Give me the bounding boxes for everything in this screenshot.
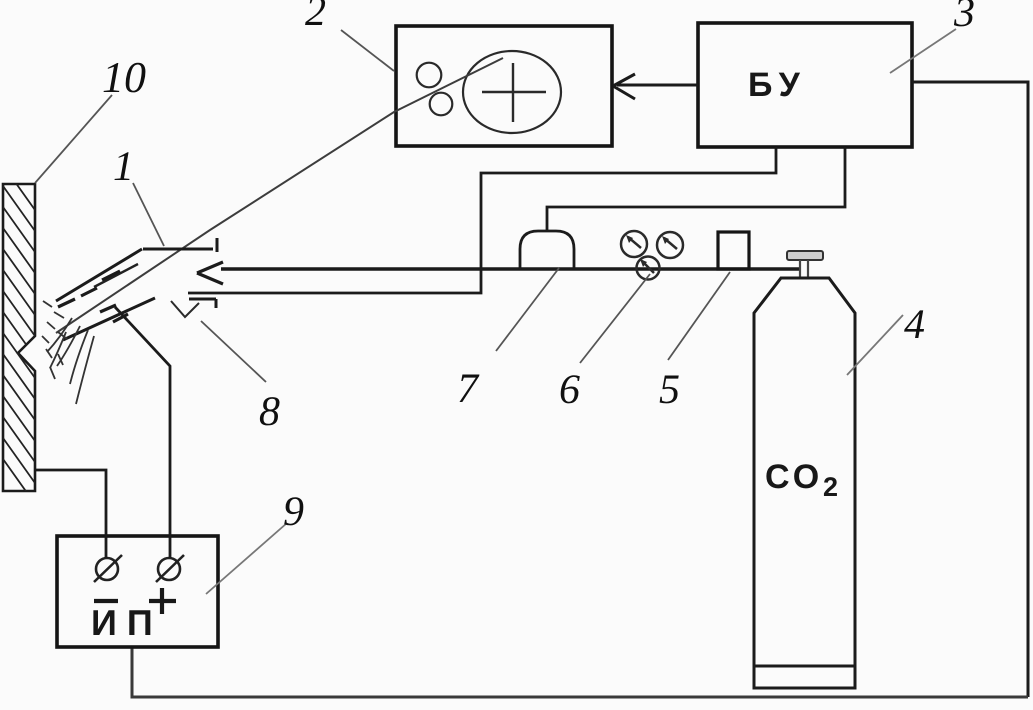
svg-text:4: 4	[904, 302, 925, 348]
welding torch 1	[56, 238, 217, 340]
svg-text:10: 10	[102, 53, 146, 102]
gas hose line	[221, 267, 799, 271]
pressure regulator 6 (gauges)	[621, 231, 683, 280]
feed roller upper	[417, 63, 442, 88]
pointer line 1	[133, 183, 164, 246]
arc spray	[42, 301, 94, 404]
electrode wire from spool to torch	[56, 58, 503, 333]
contact tube dashes 8	[58, 271, 128, 322]
svg-text:9: 9	[283, 489, 304, 535]
cylinder valve	[787, 251, 823, 260]
svg-text:7: 7	[457, 366, 480, 412]
pointer line 10	[35, 95, 112, 183]
terminal plus	[156, 555, 184, 582]
wire workpiece to ИП minus	[35, 470, 106, 558]
svg-text:8: 8	[259, 389, 280, 435]
control cable БУ to gas valve	[547, 147, 845, 232]
svg-text:3: 3	[953, 0, 975, 36]
wire БУ to bottom right corner	[912, 82, 1028, 697]
control cable БУ to torch	[188, 147, 776, 293]
pointer line 5	[668, 272, 730, 360]
arrow into torch	[197, 262, 223, 284]
pointer line 9	[206, 523, 287, 594]
svg-text:ИП: ИП	[91, 602, 163, 643]
arrow БУ to feeder	[613, 74, 698, 99]
minus sign	[94, 599, 118, 603]
svg-text:2: 2	[823, 472, 838, 502]
svg-text:2: 2	[305, 0, 326, 35]
svg-text:6: 6	[559, 367, 580, 413]
pointer line 7	[496, 268, 559, 351]
pointer line 6	[580, 274, 650, 363]
pointer line 4	[847, 315, 903, 375]
control unit БУ 3 (box)	[698, 23, 912, 147]
workpiece plate 10 (hatched bar)	[3, 184, 35, 491]
terminal minus	[94, 555, 122, 582]
wire torch to ИП plus	[115, 307, 170, 558]
feed roller lower	[430, 93, 453, 116]
CO2 cylinder 4	[754, 278, 855, 688]
nozzle mark	[171, 301, 199, 317]
gas valve 7 (dome)	[520, 231, 574, 269]
power source ИП 9 (box)	[57, 536, 218, 647]
bottom return wire	[132, 647, 1028, 697]
wire spool	[463, 51, 561, 133]
plus sign	[149, 588, 176, 614]
gas heater 5 (small box)	[718, 232, 749, 269]
svg-text:СО: СО	[765, 458, 823, 496]
svg-text:1: 1	[113, 144, 134, 190]
wire feed unit 2 (box)	[396, 26, 612, 146]
pointer line 2	[341, 30, 394, 71]
svg-text:БУ: БУ	[748, 66, 807, 104]
svg-text:5: 5	[659, 367, 680, 413]
pointer line 8	[201, 321, 266, 382]
pointer line 3	[890, 29, 956, 73]
inner torch line	[94, 264, 138, 287]
hatching of workpiece	[3, 165, 35, 504]
